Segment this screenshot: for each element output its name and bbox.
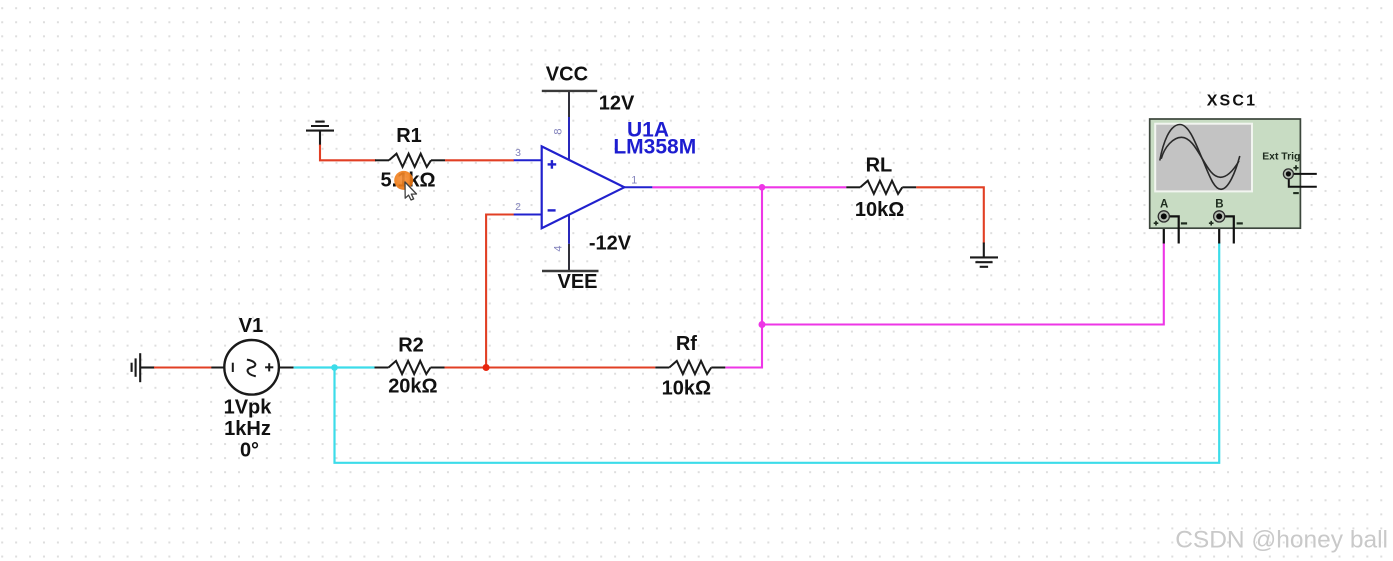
scope trace A [1160,125,1240,190]
wire RL to ground G2 (red) [916,187,984,243]
svg-text:10kΩ: 10kΩ [855,199,904,221]
svg-text:-12V: -12V [589,232,632,254]
svg-text:R2: R2 [398,334,424,356]
junction dot mid node [759,321,766,328]
connector B wire [1225,216,1234,243]
svg-text:1kHz: 1kHz [224,418,271,440]
junction dot V1 node (cyan) [331,364,338,371]
wire U1A pin2 to node N1 (red) [486,215,514,368]
connector A plus [1154,221,1159,226]
svg-text:10kΩ: 10kΩ [662,378,711,400]
ground G1 (top-left, inverted earth) [306,122,334,146]
source V1 sine glyph [247,360,256,377]
op-amp U1A pin 3 lead [514,159,542,161]
wire node to scope A (magenta) [762,243,1164,325]
svg-text:RL: RL [866,155,893,177]
ext trig plus wire [1293,173,1317,175]
cursor highlight blob [394,171,413,190]
VEE power bar [542,270,599,272]
source V1 minus tick [232,363,234,372]
svg-text:A: A [1160,199,1168,211]
source V1 left stub [211,367,224,369]
ext trig plus [1293,165,1298,170]
svg-text:B: B [1215,199,1223,211]
ground G3 (left of V1, rotated) [132,353,155,382]
wire Rf to node (magenta) [725,325,762,368]
wire scope A pin stub (black) [1163,220,1165,244]
svg-text:Rf: Rf [676,333,697,355]
svg-text:V1: V1 [239,315,263,337]
wire ground G1 to R1 (red) [320,145,376,161]
resistor RL [846,181,916,194]
source V1 plus marker [265,363,273,371]
connector A [1158,211,1169,222]
wire ground G3 to V1 (red) [154,366,212,368]
op-amp U1A pin 4 (VEE) line [568,244,570,271]
resistor Rf [655,361,725,374]
svg-text:20kΩ: 20kΩ [388,375,437,397]
oscilloscope XSC1 body [1150,119,1301,228]
scope trace B [1161,137,1239,177]
svg-text:Ext Trig: Ext Trig [1262,151,1300,162]
ext trig minus [1293,192,1299,194]
svg-text:LM358M: LM358M [613,136,696,159]
connector A minus [1181,222,1187,224]
mouse cursor [405,182,417,200]
ground G2 [970,243,998,267]
svg-text:0°: 0° [240,439,259,461]
ext trig minus wire [1289,179,1317,187]
wire node to scope B (cyan) [335,243,1220,463]
wire output node down (magenta) [761,187,763,324]
wire U1A output to RL (magenta) [652,186,846,188]
op-amp output pin 1 lead [624,186,652,188]
op-amp U1A body [542,146,625,228]
svg-text:8: 8 [553,128,565,134]
oscilloscope screen [1155,124,1252,192]
svg-text:4: 4 [553,245,565,251]
svg-text:2: 2 [515,201,521,213]
wire R1 to U1A pin3 (red) [445,159,514,161]
connector A wire [1170,216,1179,243]
wire V1 to R2 (cyan) [294,366,375,368]
connector B plus [1209,221,1214,226]
svg-text:3: 3 [515,147,521,159]
svg-text:R1: R1 [396,125,422,147]
svg-text:12V: 12V [599,92,635,114]
junction dot node N1 (red) [483,364,490,371]
connector B [1214,211,1225,222]
svg-text:CSDN @honey ball: CSDN @honey ball [1175,527,1388,554]
svg-text:VEE: VEE [557,271,597,293]
svg-text:1: 1 [631,175,637,187]
resistor R2 [375,361,445,374]
svg-text:1Vpk: 1Vpk [224,396,273,418]
VCC power bar [542,90,597,92]
wire R2 to Rf through node N1 (red) [445,366,656,368]
op-amp minus input marker [548,209,556,211]
svg-text:XSC1: XSC1 [1207,93,1258,110]
resistor R1 [375,154,445,167]
wire scope B pin stub (black) [1218,220,1220,244]
ext trig connector [1283,169,1293,179]
connector B minus [1237,222,1243,224]
source V1 right stub [279,367,294,369]
junction dot output node [759,184,766,191]
source V1 body [224,340,279,395]
op-amp U1A pin 2 lead [514,214,542,216]
svg-text:VCC: VCC [546,64,588,86]
op-amp plus input marker [548,160,557,169]
op-amp U1A pin 8 (VCC) line [568,91,570,117]
